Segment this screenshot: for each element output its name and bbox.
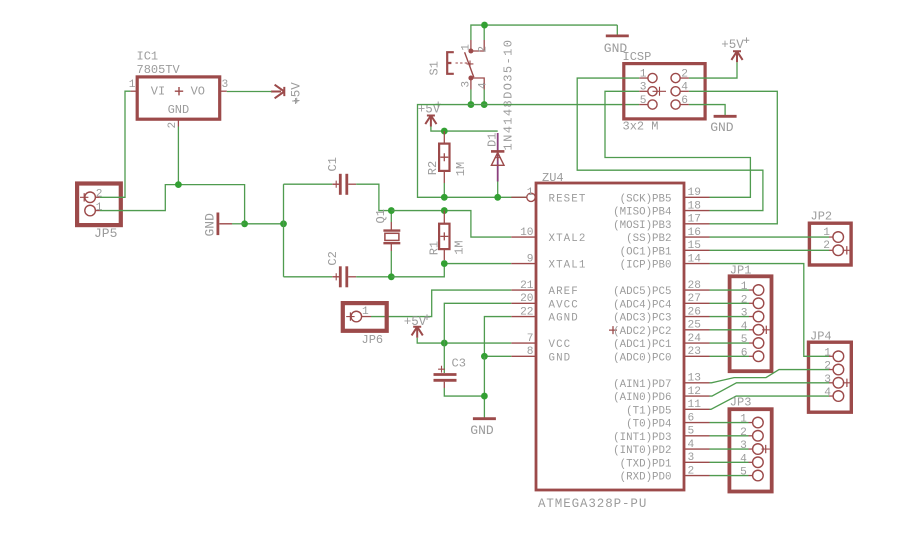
svg-text:21: 21 [520,280,534,292]
svg-text:(AIN1)PD7: (AIN1)PD7 [613,379,671,391]
wire AGND pin22 to GND net [484,317,511,357]
svg-text:AVCC: AVCC [549,299,579,311]
pin 13 (AIN1)PD7 [613,373,709,391]
IC ZU4 ATMEGA328P-PU [536,171,684,511]
pin 10 XTAL2 [511,227,586,245]
pin 20 AVCC [511,293,579,311]
junction GND corner [241,220,248,227]
+5V supply near VCC [404,314,430,337]
+5V supply near ICSP [721,37,749,62]
wire +5V to VCC pin 7 [417,338,511,343]
pin 12 (AIN0)PD6 [613,386,709,404]
svg-text:3: 3 [824,374,831,386]
svg-text:(ICP)PB0: (ICP)PB0 [620,260,672,272]
switch S1 [427,40,489,90]
svg-text:1: 1 [96,202,103,214]
svg-text:+5V: +5V [721,38,744,52]
svg-text:(INT0)PD2: (INT0)PD2 [613,445,671,457]
svg-text:Q1: Q1 [374,209,388,223]
wire +5V to R2/D1 tops [431,127,498,132]
svg-text:11: 11 [688,399,702,411]
svg-text:(SS)PB2: (SS)PB2 [626,233,671,245]
junction S1 pin3 [468,101,475,108]
pin 16 (SS)PB2 [626,227,709,245]
pin 26 (ADC3)PC3 [613,306,709,324]
junction GND pin8 [481,353,488,360]
svg-text:GND: GND [203,213,218,237]
junction C3/GND [481,393,488,400]
svg-text:2: 2 [96,189,103,201]
wire D1 bottom to RESET net [497,182,499,198]
svg-text:2: 2 [741,294,748,306]
pin 1 RESET [511,187,586,205]
wire C1 left to ground vertical [284,183,333,185]
pin 9 XTAL1 [511,253,586,271]
wire IC1 GND down [177,127,179,185]
svg-text:2: 2 [824,361,831,373]
junction crystal bottom [388,273,395,280]
wires pins 6,5,4,3,2 to JP3 [710,422,749,424]
svg-text:20: 20 [520,293,534,305]
pin 8 GND [511,346,571,364]
junction R1 top [441,207,448,214]
pin 15 (OC1)PB1 [620,240,710,258]
svg-text:13: 13 [688,373,701,385]
svg-text:10: 10 [520,227,534,239]
pin 5 (INT1)PD3 [613,426,709,444]
svg-text:C2: C2 [326,251,340,265]
svg-text:4: 4 [824,387,831,399]
svg-text:26: 26 [688,306,701,318]
svg-text:6: 6 [688,412,695,424]
wire JP5 pin2 to IC1 VI [100,91,130,197]
svg-text:1M: 1M [454,162,468,176]
pin 17 (MOSI)PB3 [613,214,709,232]
junction R2 bottom on RESET [441,194,448,201]
svg-text:6: 6 [681,95,688,107]
svg-text:VI: VI [151,85,165,99]
svg-text:JP5: JP5 [94,226,117,241]
junction R1 bottom [441,260,448,267]
connector JP1 [730,264,772,372]
wire AVCC pin 20 to VCC net [444,303,511,343]
capacitor C3 [434,343,466,388]
wire C1 right to crystal top [356,184,391,210]
pin 11 (T1)PD5 [626,399,709,417]
pin 6 (T0)PD4 [626,412,709,430]
svg-text:22: 22 [520,306,533,318]
svg-text:(ADC5)PC5: (ADC5)PC5 [613,286,671,298]
wire S1 pins 3,4 to RESET net [470,90,472,105]
junction S1 pin4 [481,101,488,108]
svg-text:1: 1 [527,187,534,199]
svg-text:1: 1 [824,347,831,359]
svg-text:R1: R1 [427,241,441,255]
wire GND net JP5 pin1 / IC1 GND [100,185,284,224]
svg-text:AGND: AGND [549,313,579,325]
capacitor C1 [326,157,356,195]
svg-text:17: 17 [688,214,701,226]
svg-text:2: 2 [688,465,695,477]
wire GND vertical to ground symbol [483,356,485,417]
svg-text:2: 2 [477,46,489,53]
ICSP header 3x2 [623,50,706,134]
svg-text:GND: GND [710,120,734,135]
wire GND pin8 [484,355,511,357]
connector JP4 [809,329,852,412]
pin 23 (ADC0)PC0 [613,346,709,364]
svg-text:1: 1 [740,414,747,426]
svg-text:1: 1 [461,44,473,51]
pin 28 (ADC5)PC5 [613,280,709,298]
svg-text:6: 6 [741,347,748,359]
pin 21 AREF [511,280,579,298]
svg-text:3: 3 [640,82,647,94]
svg-text:(T1)PD5: (T1)PD5 [626,405,671,417]
diode D1 1N4148DO35-10 [486,39,516,182]
svg-text:ATMEGA328P-PU: ATMEGA328P-PU [538,497,647,511]
svg-text:1N4148DO35-10: 1N4148DO35-10 [502,39,516,151]
svg-text:3: 3 [461,81,473,88]
pin 3 (TXD)PD1 [620,452,710,470]
pin 2 (RXD)PD0 [620,465,710,483]
wire S1 pins 1,2 to ground [471,25,617,40]
svg-text:5: 5 [640,95,647,107]
svg-text:1: 1 [129,79,136,91]
pin 4 (INT0)PD2 [613,439,709,457]
wire RESET net horizontal and left vertical [418,105,640,198]
wire C2 right to crystal bottom [356,276,391,278]
wire IC1 output to +5V [227,91,272,93]
svg-text:JP2: JP2 [811,210,833,224]
wire ICSP pin2 to +5V [689,62,737,78]
svg-text:JP6: JP6 [362,333,384,347]
pin 18 (MISO)PB4 [613,200,709,218]
svg-text:GND: GND [168,103,190,117]
ground symbol near ICSP pin6 [689,105,737,135]
svg-text:24: 24 [688,333,702,345]
svg-text:5: 5 [688,426,695,438]
ground symbol above ICSP [604,25,629,56]
wire XTAL2 net to pin 10 [391,211,511,238]
svg-text:(AIN0)PD6: (AIN0)PD6 [613,392,671,404]
wire pin16 to JP2 pin1 [710,236,830,238]
svg-text:18: 18 [688,200,701,212]
svg-text:5: 5 [741,334,748,346]
svg-text:RESET: RESET [549,193,587,205]
svg-text:2: 2 [167,122,179,129]
connector JP3 [729,396,771,492]
svg-text:5: 5 [740,467,747,479]
svg-text:JP1: JP1 [730,264,752,278]
svg-text:ICSP: ICSP [623,50,652,64]
svg-text:S1: S1 [427,61,441,75]
svg-text:7: 7 [527,333,534,345]
svg-text:9: 9 [527,253,534,265]
svg-text:1: 1 [741,281,748,293]
wire crystal bottom [390,251,392,277]
wire ground vertical C1-C2 [283,184,285,277]
wire SCK net ICSP pin3 to IC pin19 [605,91,750,197]
+5V supply at IC1 output [271,82,304,105]
svg-text:15: 15 [688,240,701,252]
resistor R1 1M [427,211,466,260]
wire pin14 to JP4 pin1 [710,264,830,357]
svg-text:VCC: VCC [549,339,572,351]
wire C3 bottom to GND net [444,388,484,396]
svg-text:(ADC0)PC0: (ADC0)PC0 [613,352,671,364]
junction crystal top [388,207,395,214]
svg-text:(ADC2)PC2: (ADC2)PC2 [613,326,671,338]
svg-text:3: 3 [222,79,229,91]
svg-text:(T0)PD4: (T0)PD4 [626,419,671,431]
junction VCC/C3 [441,340,448,347]
svg-text:14: 14 [688,253,702,265]
svg-text:25: 25 [688,320,701,332]
capacitor C2 [326,251,356,287]
wire MOSI net ICSP pin4 to IC pin17 [689,91,777,224]
wire pin13 to JP4 pin2 [710,370,830,383]
crystal Q1 [374,209,401,251]
junction IC1 GND [175,181,182,188]
svg-text:JP4: JP4 [810,329,832,343]
svg-text:XTAL2: XTAL2 [549,233,587,245]
connector JP5 [77,184,121,242]
svg-text:4: 4 [477,82,489,89]
connector JP2 [809,210,851,266]
svg-text:(ADC4)PC4: (ADC4)PC4 [613,299,671,311]
svg-text:(MOSI)PB3: (MOSI)PB3 [613,220,671,232]
svg-text:XTAL1: XTAL1 [549,260,587,272]
svg-text:GND: GND [470,423,494,438]
svg-text:4: 4 [740,453,747,465]
svg-text:(SCK)PB5: (SCK)PB5 [620,193,672,205]
wire MISO net ICSP pin1 to IC pin18 [577,78,763,211]
svg-text:27: 27 [688,293,701,305]
svg-text:12: 12 [688,386,701,398]
junction C1/C2 ground vertical [280,220,287,227]
+5V supply near R2 [418,102,441,127]
ground symbol below C3 [470,419,496,438]
svg-text:R2: R2 [426,161,440,175]
svg-text:4: 4 [681,82,688,94]
svg-text:(OC1)PB1: (OC1)PB1 [620,246,672,258]
pin 22 AGND [511,306,579,324]
svg-text:JP3: JP3 [730,396,752,410]
wire pin12 to JP4 pin3 [710,383,830,396]
wire crystal top to XTAL2 net [390,211,392,222]
svg-text:(INT1)PD3: (INT1)PD3 [613,432,671,444]
svg-text:19: 19 [688,187,701,199]
svg-text:3: 3 [740,440,747,452]
wire pin15 to JP2 pin2 [710,249,830,251]
svg-text:C1: C1 [326,157,340,171]
wire R2 bottom to RESET net [443,183,445,197]
svg-text:8: 8 [527,346,534,358]
svg-text:7805TV: 7805TV [137,63,181,77]
wires pins 28-23 to JP1 [710,289,750,291]
pin 27 (ADC4)PC4 [613,293,709,311]
pin 24 (ADC1)PC1 [613,333,709,351]
svg-text:4: 4 [688,439,695,451]
svg-text:ZU4: ZU4 [542,171,564,185]
svg-text:(TXD)PD1: (TXD)PD1 [620,458,672,470]
connector JP6 [343,303,387,347]
junction S1 top [481,22,488,29]
wire XTAL1 net pin 9 to R1 bottom and crystal bottom [391,264,511,277]
svg-text:4: 4 [741,321,748,333]
svg-text:VO: VO [191,85,205,99]
svg-text:IC1: IC1 [137,50,159,64]
junction R2 top [441,128,448,135]
svg-text:2: 2 [681,68,688,80]
svg-text:GND: GND [549,352,572,364]
svg-text:1: 1 [362,306,369,318]
pin 25 (ADC2)PC2 [613,320,709,338]
svg-text:(ADC1)PC1: (ADC1)PC1 [613,339,671,351]
wire C2 left to ground vertical [284,276,333,278]
svg-text:(ADC3)PC3: (ADC3)PC3 [613,313,671,325]
svg-text:1: 1 [640,68,647,80]
junction D1 bottom on RESET [494,194,501,201]
svg-text:1M: 1M [452,240,466,254]
svg-text:2: 2 [740,427,747,439]
pin 7 VCC [511,333,571,351]
svg-text:C3: C3 [452,357,466,371]
pin 19 (SCK)PB5 [620,187,710,205]
pin 14 (ICP)PB0 [620,253,710,271]
svg-text:28: 28 [688,280,701,292]
svg-text:AREF: AREF [549,286,579,298]
svg-text:3: 3 [741,308,748,320]
svg-text:(RXD)PD0: (RXD)PD0 [620,472,672,484]
wire AREF to JP6 [371,290,511,317]
svg-text:3: 3 [688,452,695,464]
wire pin11 to JP4 pin4 [710,396,830,409]
svg-text:(MISO)PB4: (MISO)PB4 [613,207,671,219]
svg-text:23: 23 [688,346,701,358]
ground symbol near JP5 [203,213,245,237]
svg-text:16: 16 [688,227,701,239]
resistor R2 1M [426,131,468,183]
svg-text:3x2 M: 3x2 M [623,120,659,134]
voltage regulator IC1 7805TV [129,50,228,129]
